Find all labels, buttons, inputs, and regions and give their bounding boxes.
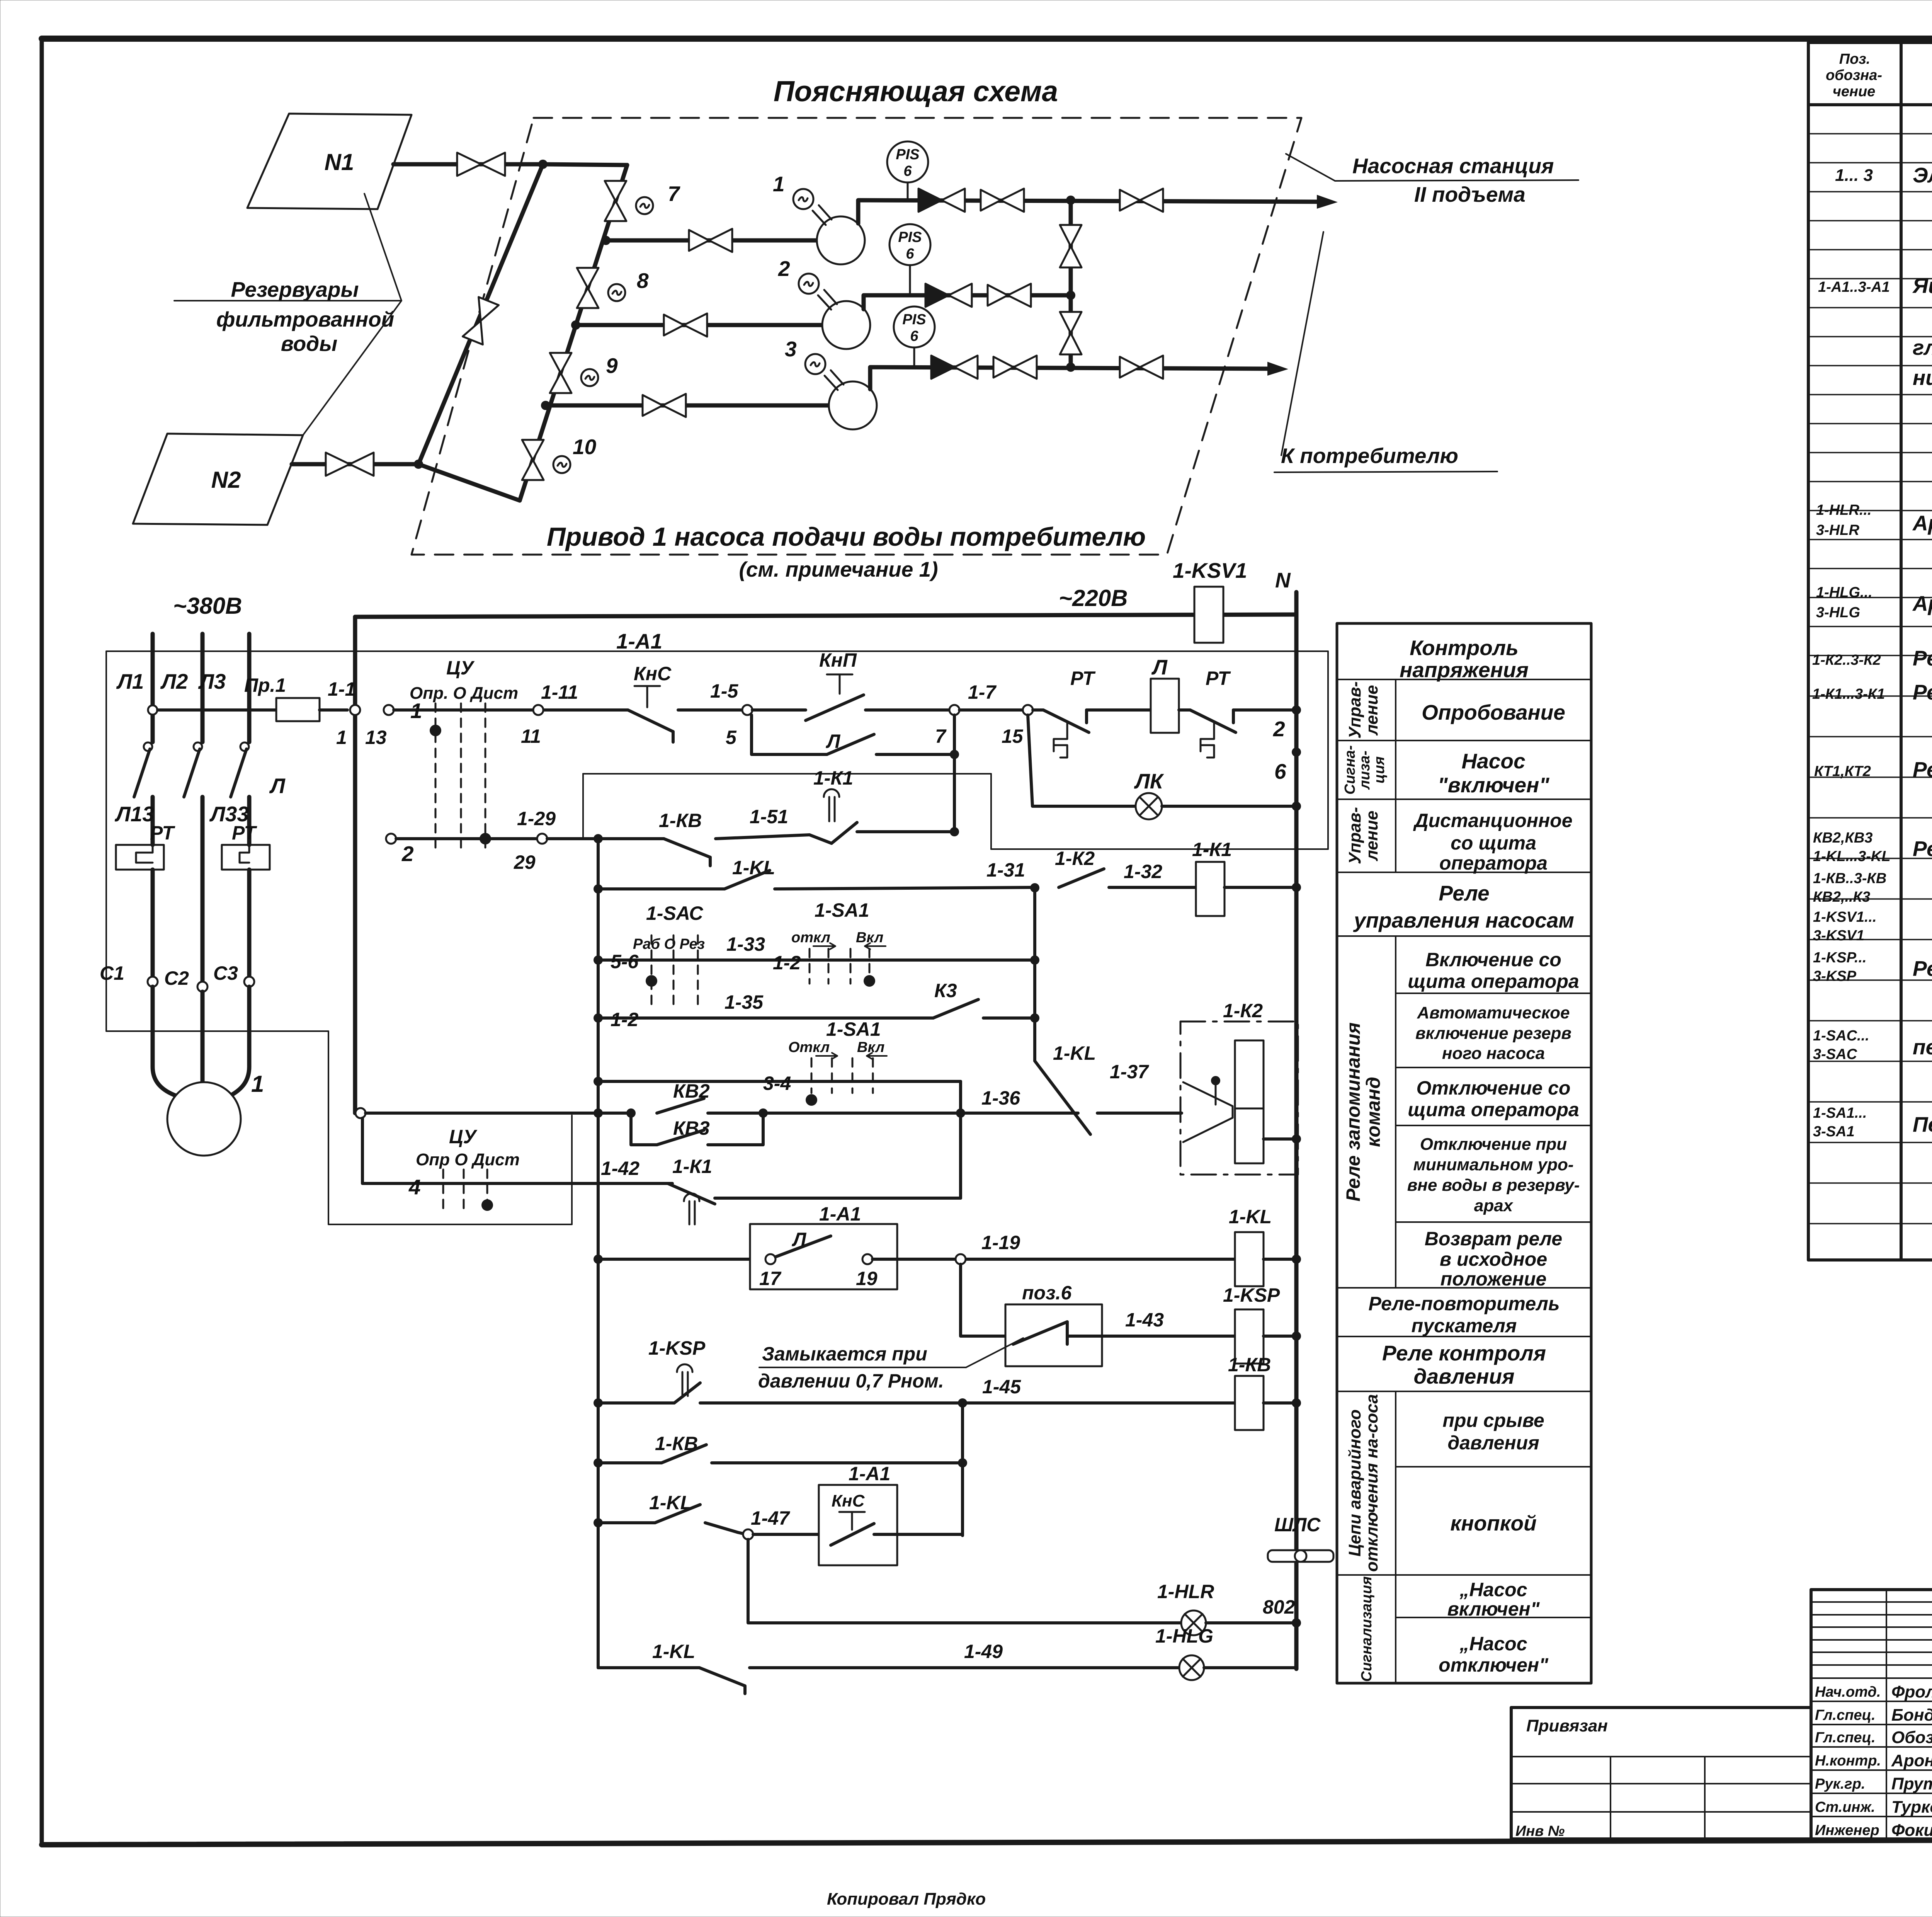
svg-text:1-HLG: 1-HLG <box>1155 1625 1213 1647</box>
svg-text:К потребителю: К потребителю <box>1281 444 1458 468</box>
svg-text:Арматура АС-220 с красной ли: Арматура АС-220 с красной линзой <box>1912 511 1932 535</box>
svg-text:Опр О Дист: Опр О Дист <box>416 1150 520 1169</box>
svg-text:15: 15 <box>1002 725 1024 747</box>
cell: Управление 2 (rotated) <box>1345 807 1381 864</box>
svg-text:1-5: 1-5 <box>710 680 738 702</box>
svg-text:6: 6 <box>903 163 912 179</box>
svg-text:3-SAC: 3-SAC <box>1813 1046 1857 1062</box>
cabinet 1-A1 boundary <box>106 651 1328 1224</box>
svg-text:1-SA1...: 1-SA1... <box>1813 1105 1867 1121</box>
svg-text:1-2: 1-2 <box>611 1009 638 1030</box>
svg-text:7: 7 <box>668 182 680 206</box>
row 3-4 selector 1-SA1 (lower) <box>594 1018 961 1106</box>
arrowhead discharge 3 <box>1267 362 1288 376</box>
svg-text:Привязан: Привязан <box>1526 1716 1608 1735</box>
svg-text:отключен": отключен" <box>1439 1654 1549 1676</box>
svg-text:напряжения: напряжения <box>1400 658 1529 682</box>
pipe from N1 <box>393 162 543 167</box>
svg-text:802: 802 <box>1263 1596 1295 1618</box>
fuse Пр.1 <box>148 674 347 721</box>
svg-text:Фокина: Фокина <box>1891 1821 1932 1840</box>
svg-text:РТ: РТ <box>150 822 175 844</box>
svg-text:1-А1: 1-А1 <box>819 1203 861 1225</box>
check valve discharge 1 <box>918 189 965 212</box>
pressure switch branch поз.6 <box>961 1264 1235 1366</box>
memory relay block 1-К2 <box>1180 1000 1301 1175</box>
svg-text:1-К2..3-К2: 1-К2..3-К2 <box>1812 652 1881 668</box>
cell: при срыве давления <box>1442 1410 1544 1454</box>
svg-text:Л: Л <box>269 774 286 798</box>
junction node header/d2 <box>1066 291 1075 300</box>
voltage relay coil 1-KSV1 <box>1173 558 1247 643</box>
svg-text:17: 17 <box>759 1268 782 1289</box>
svg-text:Сигнализация: Сигнализация <box>1359 1577 1375 1682</box>
signal bus tap ШЛС <box>1268 1514 1333 1562</box>
cell: Возврат реле в исходное положение <box>1425 1228 1562 1290</box>
cell: Отключение со щита оператора <box>1408 1077 1579 1120</box>
svg-text:главной цепи -380В, целей у: главной цепи -380В, целей управле- <box>1913 335 1932 359</box>
pipe from N2 <box>292 462 418 466</box>
svg-text:Отключение при: Отключение при <box>1420 1135 1567 1154</box>
svg-text:Электрадвигатель 4А200М4У3: Электрадвигатель 4А200М4У3 <box>1913 163 1932 187</box>
svg-text:1-31: 1-31 <box>986 859 1025 881</box>
svg-text:6: 6 <box>910 328 918 344</box>
svg-text:1-КВ..3-КВ: 1-КВ..3-КВ <box>1813 870 1886 887</box>
function annotation table <box>1337 623 1591 1683</box>
item ящик управления <box>1818 274 1932 390</box>
svg-text:Отключение со: Отключение со <box>1417 1077 1571 1099</box>
svg-text:в исходное: в исходное <box>1440 1248 1547 1270</box>
svg-text:Дистанционное: Дистанционное <box>1413 810 1572 831</box>
svg-text:1-КВ: 1-КВ <box>1228 1354 1271 1376</box>
svg-text:Обозная: Обозная <box>1891 1728 1932 1747</box>
svg-text:ния 220В: ния 220В <box>1913 366 1932 390</box>
svg-text:Реле: Реле <box>1439 881 1489 905</box>
row 2: wire 2 <box>386 808 664 873</box>
svg-text:кнопкой: кнопкой <box>1450 1511 1536 1535</box>
svg-text:1-KSP...: 1-KSP... <box>1813 950 1867 966</box>
svg-text:Л2: Л2 <box>160 669 188 693</box>
svg-text:Н.контр.: Н.контр. <box>1815 1753 1881 1769</box>
svg-text:1: 1 <box>336 727 347 748</box>
cell: Автоматическое включение резервного насоса <box>1415 1003 1571 1063</box>
svg-text:Цепи аварийного: Цепи аварийного <box>1345 1410 1364 1557</box>
label: Насосная станция II подъема <box>1286 154 1578 206</box>
svg-text:PIS: PIS <box>898 229 922 245</box>
left suction manifold (slanted) <box>418 164 543 464</box>
svg-text:1... 3: 1... 3 <box>1835 166 1873 185</box>
svg-text:1-К1: 1-К1 <box>672 1156 712 1177</box>
row: contact 1-КВ <box>594 1403 967 1536</box>
top control bus ~220V <box>355 615 1296 617</box>
svg-text:Резервуары: Резервуары <box>231 278 359 301</box>
item арматура красная <box>1816 502 1932 538</box>
svg-text:1-К1: 1-К1 <box>813 767 853 789</box>
svg-text:переключатель УП5312-С29У3: переключатель УП5312-С29У3 <box>1913 1035 1932 1059</box>
right suction manifold with unit valves (slanted) <box>520 165 627 501</box>
left control bus Ф (from fuse) <box>353 617 357 1113</box>
pressure instrument PIS pump 3 <box>894 306 935 367</box>
pump 2 <box>822 301 870 349</box>
pipe N1 junction to manifold top <box>543 164 627 165</box>
svg-text:1-KSP: 1-KSP <box>648 1337 706 1359</box>
svg-text:„Насос: „Насос <box>1459 1633 1527 1655</box>
check valve discharge 2 <box>925 284 972 307</box>
item переключатель С29У3 <box>1813 1028 1932 1062</box>
reservoir N2 <box>133 434 303 525</box>
svg-text:лиза-: лиза- <box>1357 751 1373 790</box>
svg-text:отключения на-соса: отключения на-соса <box>1362 1394 1381 1572</box>
svg-text:N1: N1 <box>325 149 354 175</box>
svg-text:1-HLR: 1-HLR <box>1157 1581 1214 1602</box>
reservoir N1 <box>247 114 412 209</box>
unit valve 10 <box>522 440 544 480</box>
svg-text:КВ2,КВ3: КВ2,КВ3 <box>1813 830 1872 846</box>
svg-text:2: 2 <box>1273 717 1285 741</box>
wire node7 to 15 <box>959 708 1023 712</box>
svg-text:~380В: ~380В <box>173 593 242 619</box>
svg-text:Переключатель УП5312-А89У3: Переключатель УП5312-А89У3 <box>1913 1112 1932 1136</box>
pressure instrument PIS pump 2 <box>889 224 930 295</box>
svg-text:1-К1...3-К1: 1-К1...3-К1 <box>1812 686 1885 702</box>
phase wire Л1 <box>116 634 153 845</box>
junction node header/d3 <box>1066 363 1075 372</box>
svg-text:ление: ление <box>1362 810 1381 861</box>
svg-text:фильтрованной: фильтрованной <box>216 307 395 331</box>
svg-text:1-51: 1-51 <box>750 806 788 827</box>
thermal contact РТ 1 <box>1033 667 1151 758</box>
terminal 1-5 <box>742 705 752 715</box>
svg-text:1-1: 1-1 <box>328 678 355 700</box>
gate valve discharge 1 outlet <box>1120 189 1163 212</box>
thermal element РТ phase 1 <box>116 822 175 977</box>
red lamp circuit 1-HLR <box>748 1539 1301 1635</box>
svg-text:Л13: Л13 <box>114 802 154 826</box>
riser 3-4/1-36/1-42 <box>959 1081 962 1198</box>
unit valve 9 <box>550 353 571 393</box>
terminal 15 <box>1023 705 1033 715</box>
svg-text:Насос: Насос <box>1461 749 1525 773</box>
svg-text:1-7: 1-7 <box>968 681 997 703</box>
cell: Сигнализация (rotated) <box>1359 1577 1375 1682</box>
valve on suction 3 <box>643 394 686 417</box>
svg-text:РТ: РТ <box>1206 667 1231 689</box>
item реле РП12У4 <box>1812 646 1932 686</box>
wire 1-42 <box>572 1156 712 1183</box>
svg-text:Нач.отд.: Нач.отд. <box>1815 1684 1881 1700</box>
terminal С1 <box>148 977 158 987</box>
svg-text:1: 1 <box>773 172 785 196</box>
header Поз. обозначение <box>1826 51 1882 100</box>
note Замыкается при давлении <box>758 1338 1023 1392</box>
svg-text:Пр.1: Пр.1 <box>244 674 286 696</box>
svg-text:Сигна-: Сигна- <box>1342 745 1358 795</box>
svg-text:1-KSV1: 1-KSV1 <box>1173 558 1247 582</box>
svg-text:4: 4 <box>408 1175 421 1199</box>
gate valve discharge 3 outlet <box>1120 356 1163 379</box>
terminal 13 <box>384 705 394 715</box>
svg-text:щита оператора: щита оператора <box>1408 1099 1579 1120</box>
svg-text:1-А1: 1-А1 <box>849 1463 890 1485</box>
svg-text:команд: команд <box>1362 1077 1384 1147</box>
svg-text:при срыве: при срыве <box>1442 1410 1544 1431</box>
item реле РПУ2 <box>1813 830 1932 865</box>
terminal С3 <box>244 977 254 987</box>
svg-text:Реле РП12У4 ~220В пп ТУ16-: Реле РП12У4 ~220В пп ТУ16-523.072-75 <box>1913 646 1932 670</box>
svg-text:Арматура АС-220 с зеленой л: Арматура АС-220 с зеленой линзой <box>1912 591 1932 615</box>
motor feeder wires <box>153 987 177 1096</box>
neutral bus N <box>1294 592 1299 1669</box>
svg-text:1-SА1: 1-SА1 <box>815 899 869 921</box>
time contact 1-К1 (row 2) <box>810 767 959 843</box>
svg-text:3-4: 3-4 <box>763 1073 791 1094</box>
pump 3 <box>829 381 877 429</box>
svg-text:1: 1 <box>251 1071 264 1097</box>
svg-text:включение резерв: включение резерв <box>1415 1024 1571 1043</box>
svg-text:1-SAC...: 1-SAC... <box>1813 1028 1869 1044</box>
gate valve discharge 2 <box>988 284 1031 307</box>
svg-text:обозна-: обозна- <box>1826 67 1882 83</box>
svg-text:1-HLG...: 1-HLG... <box>1816 584 1872 601</box>
svg-text:откл: откл <box>791 930 830 946</box>
seal-in contact Л branch <box>752 715 959 831</box>
svg-text:управления насосам: управления насосам <box>1353 908 1574 932</box>
relief valve header lower <box>1060 312 1082 354</box>
cell: Насос включен <box>1438 749 1550 797</box>
svg-text:пускателя: пускателя <box>1412 1315 1517 1336</box>
svg-text:1-KSV1...: 1-KSV1... <box>1813 909 1877 925</box>
callout bracket to reservoirs <box>303 194 401 435</box>
cell: Цепи аварийного отключения насоса (rotated) <box>1345 1394 1381 1572</box>
svg-text:~220В: ~220В <box>1059 585 1128 611</box>
svg-text:13: 13 <box>365 727 387 748</box>
row 1-KL / 1-K2 / coil 1-K1 <box>594 848 1196 894</box>
svg-text:Опробование: Опробование <box>1422 700 1565 724</box>
junction node header/d1 <box>1066 196 1075 205</box>
svg-text:Управ-: Управ- <box>1345 807 1364 864</box>
svg-text:1-KL: 1-KL <box>652 1641 695 1662</box>
phase wire Л2 <box>160 634 202 982</box>
node 6 <box>1292 747 1301 757</box>
svg-text:„Насос: „Насос <box>1459 1579 1527 1600</box>
svg-text:1-SАС: 1-SАС <box>646 902 703 924</box>
svg-text:оператора: оператора <box>1439 852 1548 874</box>
valve on N1 pipe <box>457 153 505 176</box>
selector ЦУ (row 1) <box>410 657 518 849</box>
parts list table grid <box>1808 43 1932 1260</box>
cell: Контроль напряжения <box>1400 636 1529 682</box>
svg-text:Аронсон: Аронсон <box>1891 1751 1932 1770</box>
svg-text:давления: давления <box>1447 1432 1539 1454</box>
cell: Реле контроля давления <box>1382 1341 1546 1388</box>
svg-text:"включен": "включен" <box>1438 773 1550 797</box>
label: Резервуары фильтрованной воды <box>174 278 394 356</box>
svg-text:Фролов: Фролов <box>1891 1682 1932 1701</box>
cell: Реле-повторитель пускателя <box>1368 1293 1560 1336</box>
svg-text:РТ: РТ <box>232 822 257 844</box>
svg-text:ЦУ: ЦУ <box>446 657 475 679</box>
svg-text:вне воды в резерву-: вне воды в резерву- <box>1407 1176 1580 1195</box>
svg-text:КнП: КнП <box>819 649 857 671</box>
svg-text:давлении 0,7 Рном.: давлении 0,7 Рном. <box>758 1370 944 1392</box>
unit valve 8 <box>577 268 599 308</box>
svg-text:Реле ВЛ-43УХЛ4, в.в 1-10с , ~: Реле ВЛ-43УХЛ4, в.в 1-10с , ~220В <box>1913 957 1932 981</box>
svg-text:С1: С1 <box>100 962 124 984</box>
svg-text:1-А1..3-А1: 1-А1..3-А1 <box>1818 279 1890 295</box>
cell: Включение со щита оператора <box>1408 949 1579 992</box>
changeover contact 1-KL (row 1-36) <box>1035 1042 1182 1134</box>
title block outer <box>1811 1590 1932 1839</box>
svg-text:1-33: 1-33 <box>726 933 765 955</box>
item переключатель А89У3 <box>1813 1105 1932 1140</box>
svg-text:Инженер: Инженер <box>1815 1822 1879 1839</box>
cell: Насос отключен <box>1439 1633 1549 1676</box>
suction branch node 3 <box>541 401 550 410</box>
svg-text:КТ1,КТ2: КТ1,КТ2 <box>1814 763 1871 780</box>
svg-text:КнС: КнС <box>634 663 672 684</box>
cell: Насос включен <box>1447 1579 1540 1620</box>
motor actuator of valve 7 <box>636 197 653 214</box>
svg-text:5-6: 5-6 <box>611 951 639 972</box>
motor of pump 2 <box>799 274 837 310</box>
svg-text:С3: С3 <box>213 962 238 984</box>
pump station dashed boundary <box>412 118 1301 555</box>
svg-text:Ящик управления ЯУ5141-23А2В: Ящик управления ЯУ5141-23А2В в <box>1912 274 1932 298</box>
selector ЦУ (row 4) <box>362 1118 572 1212</box>
discharge pipe pump 2 <box>864 295 1071 309</box>
svg-text:Копировал Прядко: Копировал Прядко <box>827 1890 986 1908</box>
svg-text:Пруткова: Пруткова <box>1891 1774 1932 1793</box>
svg-text:1-А1: 1-А1 <box>616 629 662 653</box>
seal-in loop wire <box>583 774 991 849</box>
svg-text:7: 7 <box>935 725 947 747</box>
svg-text:Л1: Л1 <box>116 669 144 693</box>
svg-text:11: 11 <box>521 725 541 747</box>
svg-text:чение: чение <box>1833 83 1876 100</box>
svg-text:Л: Л <box>826 730 841 752</box>
pump 1 <box>817 216 865 264</box>
svg-text:(см. примечание 1): (см. примечание 1) <box>739 557 938 581</box>
motor actuator of valve 9 <box>581 369 598 386</box>
cell: Сигнализация (rotated) <box>1342 745 1388 795</box>
svg-text:Реле РВП72-3121-00У4, ~220В,: Реле РВП72-3121-00У4, ~220В, 50Гц <box>1913 758 1932 781</box>
svg-text:1-37: 1-37 <box>1110 1061 1149 1083</box>
svg-text:давления: давления <box>1413 1364 1514 1388</box>
aux contact 1-КВ (row 2) <box>659 806 810 866</box>
terminal 1-11 <box>533 705 543 715</box>
svg-text:К3: К3 <box>934 980 957 1001</box>
arrowhead discharge 1 <box>1317 195 1338 209</box>
svg-text:арах: арах <box>1474 1196 1514 1215</box>
thermal contact РТ 2 <box>1179 667 1296 758</box>
junction node <box>538 160 548 169</box>
motor M1 <box>167 1082 241 1156</box>
svg-text:1-29: 1-29 <box>517 808 556 829</box>
pipe N2 junction to right <box>418 464 520 501</box>
gate valve discharge 1 <box>981 189 1024 212</box>
signal lamp ЛК branch <box>1028 715 1301 819</box>
pressure instrument PIS pump 1 <box>887 141 928 200</box>
svg-text:3: 3 <box>785 337 797 361</box>
svg-text:1-К2: 1-К2 <box>1223 1000 1263 1021</box>
svg-text:1-19: 1-19 <box>981 1232 1020 1253</box>
svg-text:минимальном уро-: минимальном уро- <box>1413 1155 1573 1174</box>
crossover header pipe <box>1069 200 1073 367</box>
svg-text:1-49: 1-49 <box>964 1641 1003 1662</box>
svg-text:PIS: PIS <box>896 146 919 163</box>
valve on suction 2 <box>664 313 707 337</box>
check valve discharge 3 <box>931 356 978 379</box>
svg-text:Управ-: Управ- <box>1345 681 1364 739</box>
wire to 1-11 <box>518 708 628 712</box>
svg-text:Реле-повторитель: Реле-повторитель <box>1368 1293 1560 1314</box>
motor actuator of valve 10 <box>553 456 570 473</box>
riser 1-31 to 1-35 <box>1033 888 1036 1061</box>
svg-text:1-КВ: 1-КВ <box>659 810 702 831</box>
relay coil 1-КВ <box>1228 1354 1301 1430</box>
suction pipe pump 1 <box>606 238 841 243</box>
svg-text:Привод 1 насоса подачи воды по: Привод 1 насоса подачи воды потребителю <box>547 522 1146 552</box>
svg-text:КВ3: КВ3 <box>673 1117 710 1139</box>
svg-text:ция: ция <box>1371 756 1388 783</box>
svg-text:3-HLG: 3-HLG <box>1816 604 1860 621</box>
discharge pipe pump 1 <box>858 200 1317 223</box>
cell: Реле запоминания команд (rotated) <box>1342 1022 1384 1201</box>
svg-text:Гл.спец.: Гл.спец. <box>1815 1730 1876 1746</box>
svg-text:воды: воды <box>281 332 337 356</box>
svg-text:щита оператора: щита оператора <box>1408 970 1579 992</box>
item ту16-523.331 <box>1813 870 1932 905</box>
svg-text:N: N <box>1275 568 1291 592</box>
stop button КнС <box>628 663 742 742</box>
svg-text:поз.6: поз.6 <box>1022 1282 1072 1304</box>
svg-text:3-HLR: 3-HLR <box>1816 522 1859 538</box>
row 1-45: contact 1-KSP <box>594 1337 1235 1408</box>
unit valve 7 <box>605 181 626 221</box>
signature rows <box>1815 1682 1932 1840</box>
svg-text:1-К1: 1-К1 <box>1192 839 1232 860</box>
svg-text:Реле РПУ2-36440У3Б, ~220В,: Реле РПУ2-36440У3Б, ~220В, 50Гц <box>1913 837 1932 861</box>
svg-text:1-KL: 1-KL <box>1053 1042 1096 1064</box>
svg-text:1-43: 1-43 <box>1125 1309 1164 1331</box>
relay coil 1-KSP <box>1223 1284 1301 1364</box>
svg-text:6: 6 <box>906 246 914 262</box>
motor of pump 3 <box>805 354 844 390</box>
svg-text:Автоматическое: Автоматическое <box>1417 1003 1570 1022</box>
time contact 1-К1 (row 4) <box>668 1183 961 1224</box>
cell: Управление (rotated) <box>1345 681 1381 739</box>
svg-text:со щита: со щита <box>1451 832 1536 854</box>
svg-text:Опр. О Дист: Опр. О Дист <box>410 684 518 703</box>
svg-text:Туркот: Туркот <box>1891 1798 1932 1817</box>
control bus (left riser) <box>597 839 600 1668</box>
svg-text:Рук.гр.: Рук.гр. <box>1815 1776 1865 1792</box>
aux contact Л on seal-in loop <box>582 774 584 839</box>
attachment box Привязан <box>1511 1708 1811 1839</box>
svg-text:Реле контроля: Реле контроля <box>1382 1341 1546 1365</box>
svg-text:Реле запоминания: Реле запоминания <box>1342 1022 1364 1201</box>
svg-text:1-42: 1-42 <box>601 1158 639 1179</box>
relay coil 1-KL <box>1229 1206 1301 1286</box>
svg-text:1-KSP: 1-KSP <box>1223 1284 1280 1306</box>
cell: Отключение при минимальном уровне <box>1407 1135 1580 1215</box>
svg-text:9: 9 <box>606 354 618 378</box>
svg-text:1-32: 1-32 <box>1124 861 1162 882</box>
svg-text:ного насоса: ного насоса <box>1442 1044 1545 1063</box>
svg-text:Л: Л <box>792 1229 807 1250</box>
motor of pump 1 <box>793 189 832 225</box>
row repeater contact Л 17-19 <box>594 1203 1235 1289</box>
